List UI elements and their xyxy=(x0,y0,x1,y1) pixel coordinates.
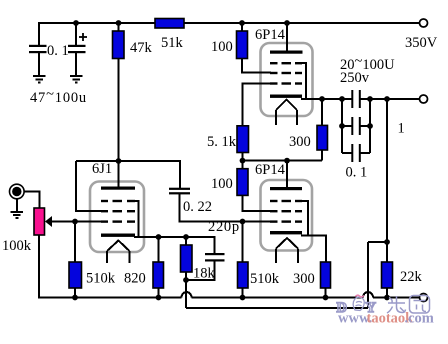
resistor 300 lower xyxy=(321,262,331,288)
wire resistor 100 upper top lead xyxy=(241,23,243,31)
svg-text:510k: 510k xyxy=(86,271,116,287)
tube U1 6J1 envelope xyxy=(90,182,144,253)
terminal ground xyxy=(420,294,428,302)
wire resistor 47k top lead xyxy=(118,23,120,31)
wire cap bank left column xyxy=(341,99,343,126)
watermark glyph yuan xyxy=(410,296,430,314)
wire cap bank left column lower xyxy=(341,126,343,153)
wire pot wiper to U1 g1 xyxy=(52,221,101,223)
resistor 100 upper xyxy=(237,31,248,59)
anode bar U3 xyxy=(270,187,302,190)
wire 820 bottom lead xyxy=(158,288,160,298)
wire 22k top lead xyxy=(386,242,388,262)
wire 510k upper top lead xyxy=(74,222,76,263)
wire U1 cathode row xyxy=(134,237,215,254)
heater U3 left pin xyxy=(275,249,277,264)
wire anode node horizontal xyxy=(76,160,119,162)
ground under C2 xyxy=(70,76,83,82)
wire 220p bottom L xyxy=(186,262,215,281)
resistor 5.1k xyxy=(237,126,249,153)
svg-text:.com: .com xyxy=(405,311,434,327)
wire 100 lower top lead xyxy=(242,161,244,169)
svg-text:100: 100 xyxy=(211,176,233,192)
svg-text:220p: 220p xyxy=(208,219,240,235)
watermark fist pink accent xyxy=(356,295,365,297)
wire input jack to pot xyxy=(24,192,40,209)
capacitor 220p plates xyxy=(205,253,225,262)
wire ground rail right segment xyxy=(373,297,420,299)
wire lower feedback rail xyxy=(186,307,368,309)
potentiometer 100k body xyxy=(34,208,45,235)
wire cap bank right column lower xyxy=(369,126,371,153)
terminal 350V xyxy=(420,19,428,27)
heater U2 xyxy=(276,100,297,111)
capacitor C3 0.22 plates xyxy=(169,188,190,195)
grid rows U3 xyxy=(270,200,302,223)
wire 22k node to feedback column xyxy=(368,241,387,243)
input jack xyxy=(9,184,24,199)
wire capacitor C2 top lead xyxy=(75,23,77,45)
svg-text:47k: 47k xyxy=(130,40,153,56)
capacitor C4a plates (top 20-100U) xyxy=(351,90,361,108)
wire 820 top lead xyxy=(158,237,160,262)
wire U2 g3 tie to cathode xyxy=(301,63,306,98)
svg-text:510k: 510k xyxy=(250,271,280,287)
wire U2 anode lead xyxy=(286,23,288,52)
svg-text:18k: 18k xyxy=(193,266,216,282)
svg-text:100k: 100k xyxy=(2,238,32,254)
wire cap C5 right lead row3 xyxy=(361,152,370,154)
resistor 100 lower xyxy=(237,169,248,196)
svg-text:6P14: 6P14 xyxy=(255,27,286,43)
svg-text:100: 100 xyxy=(211,39,233,55)
wire U2 g2 from 100 ohm xyxy=(242,59,271,73)
wire 300 upper bottom lead xyxy=(321,150,323,161)
ground at input jack xyxy=(11,212,24,218)
tube U2 6P14 upper envelope xyxy=(261,43,313,116)
heater U2 left pin xyxy=(275,110,277,125)
capacitor C4b plates (middle) xyxy=(351,117,361,135)
wire 0.22 bottom to U3 g1 xyxy=(179,194,271,222)
heater U1 xyxy=(107,241,130,252)
capacitor C1 0.1 plates xyxy=(29,45,47,53)
wire U2 cathode to output node xyxy=(301,98,352,100)
wire 18k top lead xyxy=(185,237,187,245)
wire 510k lower top lead xyxy=(242,222,244,263)
wire resistor 47k bottom lead to 6J1 anode xyxy=(118,59,120,189)
anode bar U2 xyxy=(270,51,303,54)
svg-text:22k: 22k xyxy=(400,269,423,285)
heater U3 right pin xyxy=(297,249,299,264)
cathode bar U3 xyxy=(270,231,302,234)
wire cap C4 right lead row2 xyxy=(361,125,370,127)
wire hop over at feedback column xyxy=(363,292,373,298)
heater U2 right pin xyxy=(296,110,298,125)
grid rows U1 xyxy=(101,200,135,223)
watermark fist ornament xyxy=(353,297,364,310)
resistor 22k xyxy=(382,262,393,288)
watermark glyph le xyxy=(387,296,406,313)
wire 510k lower bottom lead xyxy=(242,288,244,298)
wire 300 lower bottom lead xyxy=(325,288,327,298)
ground under C1 xyxy=(33,76,46,82)
wire cap bank right column xyxy=(369,99,371,126)
resistor 18k xyxy=(181,245,193,272)
resistor 47k xyxy=(113,31,125,59)
svg-text:5. 1k: 5. 1k xyxy=(207,134,237,150)
svg-text:350V: 350V xyxy=(405,35,438,51)
heater U1 right pin xyxy=(129,251,131,263)
svg-text:47~100u: 47~100u xyxy=(30,87,87,107)
wire U3 anode lead xyxy=(286,161,288,188)
resistor 820 xyxy=(153,262,164,288)
wire cap C5 leads row3 xyxy=(342,152,352,154)
wire hop over at 18k column xyxy=(182,292,192,298)
svg-text:6J1: 6J1 xyxy=(92,161,112,177)
wire 510k upper bottom lead xyxy=(74,288,76,298)
cathode bar U1 xyxy=(101,234,135,237)
tube U3 6P14 lower envelope xyxy=(261,180,313,251)
svg-text:0. 1: 0. 1 xyxy=(47,43,69,59)
wire cap C4 leads row2 xyxy=(342,125,352,127)
capacitor C1 bottom lead xyxy=(38,53,40,76)
capacitor C2 47-100u plates xyxy=(68,45,86,53)
resistor 51k (horizontal) xyxy=(155,19,184,29)
plus sign of C2 xyxy=(79,33,87,41)
svg-text:6P14: 6P14 xyxy=(255,162,286,178)
wire U1 g3 tie to cathode xyxy=(134,201,139,237)
wire U3 cathode lead xyxy=(301,236,326,263)
svg-text:300: 300 xyxy=(293,271,315,287)
watermark DIY letters xyxy=(337,300,377,316)
wire anode node to U1 g2 xyxy=(76,161,101,211)
wire coupling cap 0.22 top from anode node xyxy=(119,161,181,188)
svg-text:51k: 51k xyxy=(161,35,184,51)
wire output node to terminal xyxy=(361,98,420,100)
wire 22k bottom lead xyxy=(386,288,388,298)
wire 100 lower to U3 g2 xyxy=(243,195,272,211)
ground jack stem xyxy=(16,199,18,212)
wire pot bottom to ground rail xyxy=(39,235,182,298)
anode bar U1 xyxy=(101,187,135,190)
resistor 300 upper xyxy=(317,125,328,150)
wire 18k node down through hop xyxy=(185,280,187,308)
wire 18k bottom lead xyxy=(185,272,187,280)
wire feedback column down through hop xyxy=(367,242,369,308)
terminal output 1 xyxy=(420,95,428,103)
watermark url xyxy=(338,311,434,327)
grid rows U2 xyxy=(270,62,302,85)
heater U3 xyxy=(276,238,298,249)
resistor 510k upper xyxy=(69,262,82,288)
resistor 510k lower xyxy=(238,262,249,288)
wire output drop to 22k node xyxy=(386,99,388,242)
potentiometer wiper arrow xyxy=(45,216,52,227)
svg-text:0. 1: 0. 1 xyxy=(346,165,368,181)
heater U1 left pin xyxy=(106,251,108,263)
wire 300 upper top lead xyxy=(321,99,323,125)
svg-text:1: 1 xyxy=(398,121,405,137)
wire U3 g3 tie to cathode xyxy=(301,201,308,236)
wire ground rail middle segment xyxy=(192,297,364,299)
wire B+ top rail xyxy=(39,23,420,45)
svg-text:0. 22: 0. 22 xyxy=(183,199,212,215)
wire U2 g1 to 5.1k xyxy=(243,84,272,126)
svg-text:250v: 250v xyxy=(340,70,370,86)
capacitor C5 plates (0.1 bottom) xyxy=(351,144,361,162)
wire 5.1k bottom lead xyxy=(242,153,244,161)
svg-text:300: 300 xyxy=(289,134,311,150)
wire 5.1k bottom node row xyxy=(243,160,323,162)
cathode bar U2 xyxy=(270,95,302,98)
capacitor C2 bottom lead xyxy=(75,53,77,76)
svg-text:820: 820 xyxy=(124,271,146,287)
